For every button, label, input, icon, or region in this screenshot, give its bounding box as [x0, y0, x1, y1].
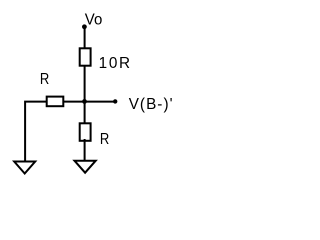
node Vo terminal dot	[82, 24, 87, 29]
node V(B-)' endpoint dot	[113, 99, 117, 103]
wire left from resistor R to elbow and down to ground	[25, 102, 47, 161]
resistor 10R body	[80, 48, 91, 65]
resistor R bottom body	[80, 123, 91, 141]
wire bottom R to right ground	[84, 139, 86, 161]
ground symbol right	[75, 161, 96, 173]
resistor R left body (horizontal)	[47, 97, 64, 107]
wire 10R bottom to junction	[84, 65, 86, 103]
wire horizontal from resistor R to V(B-)' endpoint	[64, 101, 115, 103]
svg-text:Vo: Vo	[85, 12, 103, 29]
svg-text:R: R	[100, 131, 109, 148]
wire Vo dot to 10R top	[84, 27, 86, 49]
wire junction down to bottom R	[84, 102, 86, 124]
svg-text:V(B-)': V(B-)'	[129, 96, 173, 113]
svg-text:10R: 10R	[99, 55, 131, 72]
junction dot at node	[82, 99, 87, 104]
svg-text:R: R	[40, 71, 49, 88]
ground symbol left	[14, 162, 35, 174]
